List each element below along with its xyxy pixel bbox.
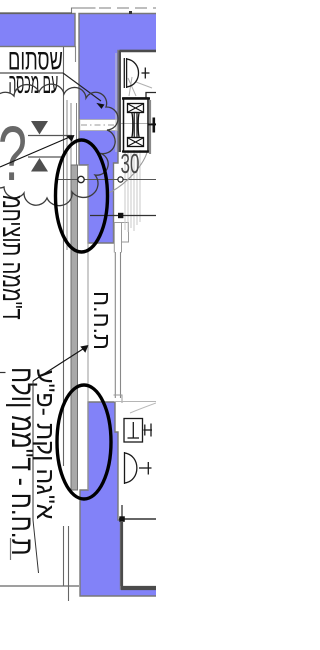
wall top-left (selected purple) — [0, 14, 75, 47]
callout ellipse upper — [56, 140, 108, 252]
window jamb lines upper — [70, 103, 72, 165]
level line 1 — [28, 135, 72, 137]
corridor wall line left — [63, 47, 65, 466]
partition bottom cap — [114, 395, 123, 403]
underline col1 tail — [10, 538, 12, 560]
svg-text:ח.ח.ת: ח.ח.ת — [89, 291, 115, 350]
long arrow to wall — [0, 136, 72, 167]
light pipe lines under basin — [128, 77, 152, 96]
circle marker B — [118, 177, 123, 182]
sill line with markers — [57, 179, 156, 181]
valve centerline dash-dot — [81, 124, 117, 126]
floor line bottom-left — [0, 585, 79, 587]
node dot top — [129, 11, 132, 14]
callout ellipse lower — [57, 385, 111, 499]
svg-text:מחיצות הממ"ד: מחיצות הממ"ד — [0, 195, 27, 320]
hatch lines in door opening — [125, 150, 140, 232]
underline col2 — [32, 381, 34, 520]
level triangle up — [31, 158, 48, 172]
svg-text:ע"פ- תקן הג"א: ע"פ- תקן הג"א — [31, 369, 59, 520]
wall lower (selected purple) — [80, 402, 158, 596]
door swing arc upper room — [106, 153, 147, 195]
wall upper-right L (selected purple) — [79, 14, 158, 244]
level line 2 — [28, 156, 63, 158]
circle marker A — [78, 176, 84, 182]
leader dash left — [0, 372, 6, 374]
basin upper (plan) — [124, 58, 149, 88]
toilet / shutter unit — [122, 98, 150, 152]
WC box fixture — [124, 419, 152, 443]
crosshair marker bottom — [119, 518, 156, 520]
room border left upper (dark) — [119, 51, 121, 152]
jamb line with square marker — [90, 215, 156, 217]
square marker — [118, 213, 123, 218]
beam dashed line top — [72, 8, 96, 14]
level triangle down — [31, 121, 48, 135]
revision cloud — [0, 84, 118, 206]
window slot right edge — [87, 165, 89, 490]
room border top (dark) — [120, 50, 157, 52]
room border left lower (dark) — [121, 521, 124, 586]
svg-text:הסכמ םע: הסכמ םע — [9, 67, 59, 99]
svg-text:?: ? — [0, 111, 27, 197]
valve hole in wall (white band) — [80, 120, 118, 131]
svg-text:30: 30 — [121, 148, 140, 179]
leader from valve label to toilet — [0, 73, 105, 109]
partition top cap — [114, 223, 121, 253]
shutter panel (gray column) — [71, 165, 78, 490]
light line through room — [121, 123, 156, 125]
toilet gray side bar — [149, 100, 151, 154]
lower wall top line — [114, 401, 156, 403]
arrow to shutter — [33, 347, 86, 381]
door frame light line — [115, 53, 117, 152]
corridor wall stub — [75, 46, 77, 62]
door swing arc lower room — [130, 403, 156, 413]
corridor wall line inner — [68, 526, 70, 601]
partition thin wall — [114, 252, 116, 398]
basin lower (plan) — [125, 452, 152, 484]
room border bottom (dark) — [121, 586, 156, 590]
handle T right — [148, 124, 156, 126]
window jamb inner line — [66, 100, 68, 250]
shelf corner top-right — [146, 93, 156, 99]
top edge line — [0, 12, 72, 14]
